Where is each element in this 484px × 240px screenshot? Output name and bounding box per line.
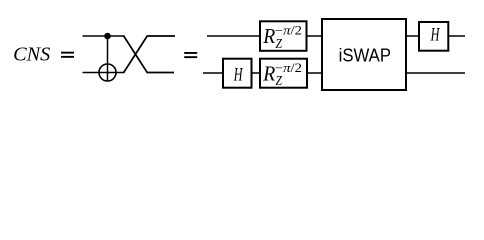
svg-text:−π/2: −π/2 [275,61,302,75]
wire q1 right circuit seg d [406,72,465,74]
gate iSWAP box [322,19,406,90]
wire q0 right circuit seg a [207,35,260,37]
gate Rz top label [262,24,302,52]
wire crossing diagonal q0->q1 [124,36,174,73]
gate Rz(-pi/2) top box [260,21,307,51]
wire q0 right circuit seg d [448,35,465,37]
gate Rz(-pi/2) bottom box [260,59,307,88]
wire q1 right circuit seg b [252,72,261,74]
gate Rz bottom label [262,61,302,89]
svg-text:CNS: CNS [13,43,50,65]
wire q0 left segment [83,35,125,37]
wire q1 right circuit seg c [307,72,322,74]
wire q0 right circuit seg c [406,35,419,37]
wire q0 right circuit seg b [307,35,323,37]
wire vertical CNOT link [107,36,109,81]
gate H bottom box [223,59,252,88]
wire crossing diagonal q1->q0 [124,36,175,73]
svg-text:R: R [262,61,275,85]
gate H top box [419,22,448,51]
svg-text:−π/2: −π/2 [275,24,302,38]
svg-text:iSWAP: iSWAP [339,46,391,66]
CNOT target [99,64,116,81]
control dot (CNOT control) [104,33,111,40]
svg-text:H: H [233,64,243,85]
svg-text:Z: Z [276,74,283,89]
equals sign 2 [184,52,197,58]
svg-text:Z: Z [276,37,283,52]
equals sign 1 [61,52,74,58]
wire q1 right circuit seg a [203,72,223,74]
svg-text:H: H [430,25,440,46]
wire q1 left segment [83,72,125,74]
svg-text:R: R [262,24,275,48]
